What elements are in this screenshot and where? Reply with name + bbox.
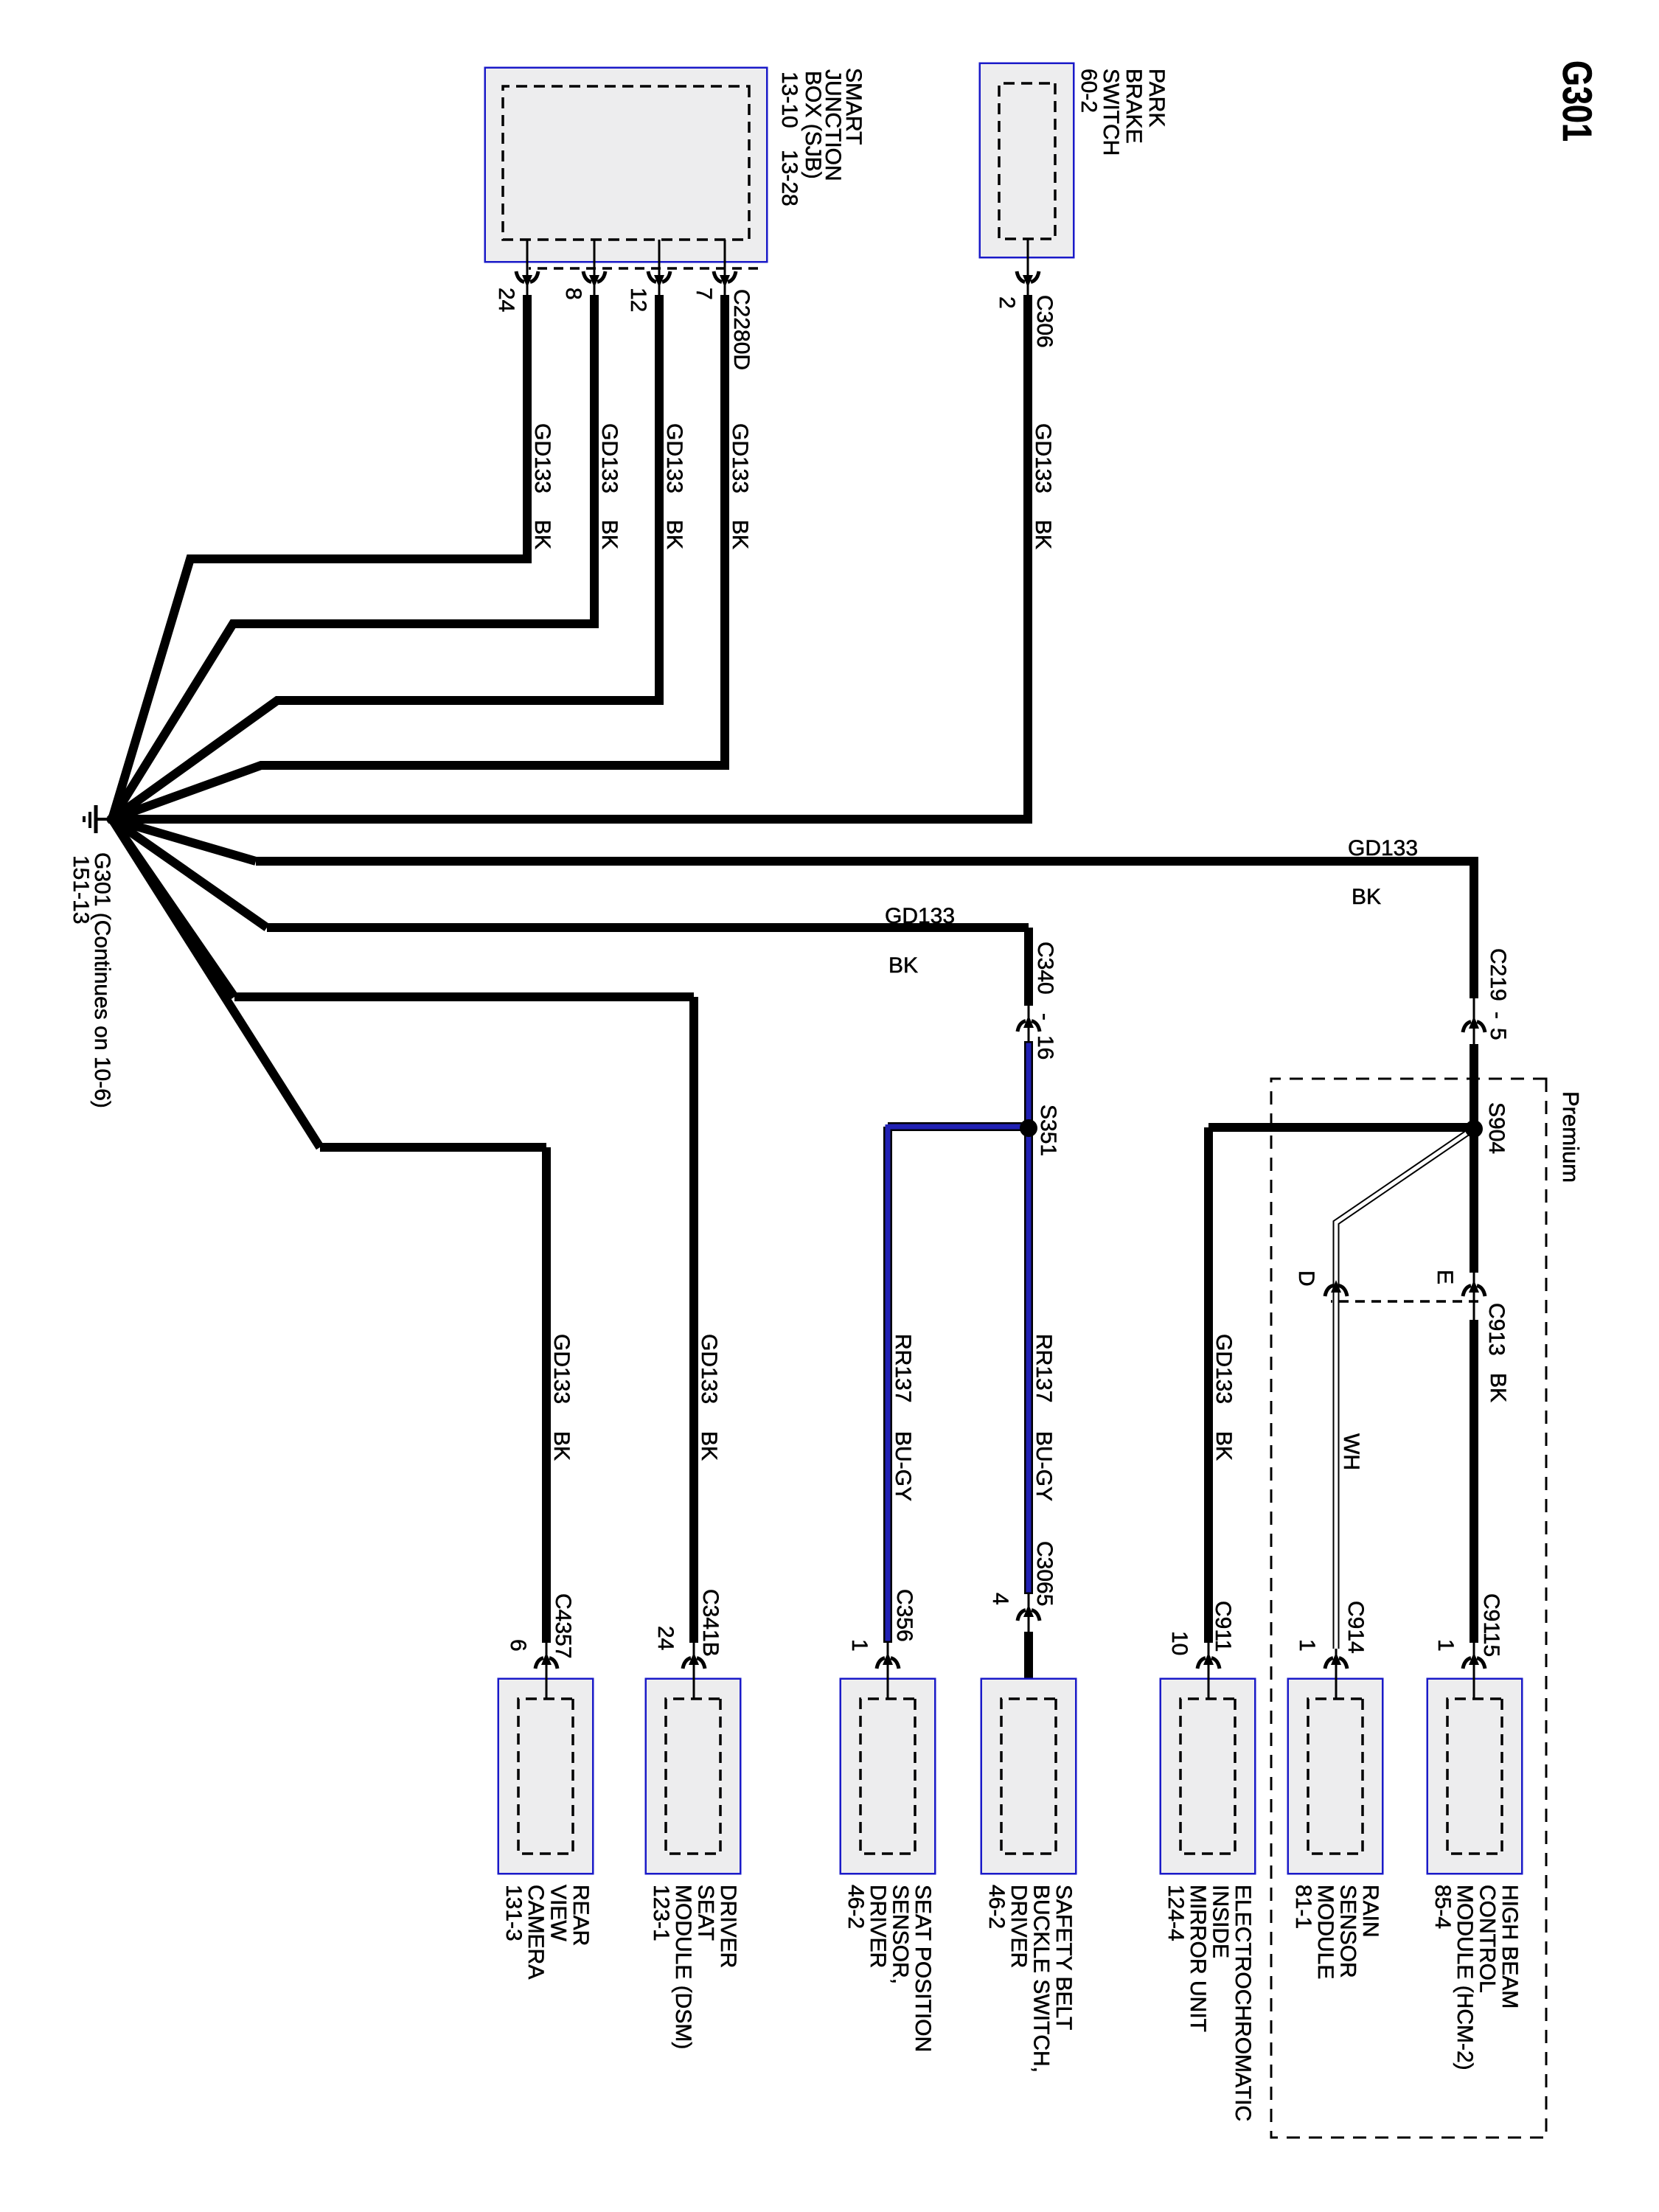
svg-text:BU-GY: BU-GY [891, 1431, 915, 1501]
svg-text:BK: BK [1352, 885, 1381, 909]
svg-text:BK: BK [697, 1431, 721, 1461]
svg-text:131-3: 131-3 [501, 1885, 526, 1941]
svg-text:C9115: C9115 [1479, 1593, 1503, 1657]
svg-text:10: 10 [1167, 1631, 1192, 1655]
svg-text:D: D [1294, 1270, 1318, 1287]
svg-text:5: 5 [1486, 1028, 1510, 1040]
svg-text:SEAT POSITION: SEAT POSITION [911, 1885, 935, 2052]
svg-text:DRIVER: DRIVER [866, 1885, 890, 1968]
svg-text:S904: S904 [1484, 1102, 1509, 1154]
svg-text:-: - [1486, 1012, 1510, 1019]
svg-text:BU-GY: BU-GY [1032, 1431, 1056, 1501]
svg-text:BK: BK [1211, 1431, 1236, 1461]
svg-text:13-10: 13-10 [777, 72, 801, 128]
svg-text:1: 1 [847, 1639, 872, 1652]
svg-text:RR137: RR137 [891, 1334, 915, 1402]
svg-text:BK: BK [1031, 520, 1055, 549]
svg-text:C2280D: C2280D [729, 289, 754, 370]
svg-text:C306: C306 [1032, 295, 1057, 348]
svg-text:ELECTROCHROMATIC: ELECTROCHROMATIC [1231, 1885, 1255, 2121]
svg-text:BK: BK [1486, 1373, 1510, 1402]
svg-text:SEAT: SEAT [694, 1885, 718, 1941]
svg-text:C914: C914 [1343, 1601, 1368, 1654]
svg-text:C341B: C341B [698, 1589, 723, 1657]
svg-text:SAFETY BELT: SAFETY BELT [1051, 1885, 1076, 2030]
svg-text:151-13: 151-13 [69, 855, 93, 924]
svg-text:GD133: GD133 [1348, 836, 1418, 860]
svg-text:1: 1 [1295, 1639, 1319, 1652]
svg-text:60-2: 60-2 [1077, 69, 1101, 113]
svg-text:4: 4 [988, 1593, 1012, 1605]
svg-text:C913: C913 [1484, 1303, 1509, 1356]
svg-text:BK: BK [530, 520, 554, 549]
svg-text:C911: C911 [1211, 1601, 1235, 1652]
svg-text:C219: C219 [1486, 948, 1510, 1001]
svg-text:8: 8 [561, 288, 585, 300]
svg-text:GD133: GD133 [662, 423, 686, 493]
svg-text:VIEW: VIEW [546, 1885, 571, 1941]
svg-text:S351: S351 [1036, 1105, 1060, 1156]
svg-text:12: 12 [626, 288, 650, 312]
svg-text:SENSOR,: SENSOR, [888, 1885, 913, 1984]
svg-text:BUCKLE SWITCH,: BUCKLE SWITCH, [1029, 1885, 1054, 2073]
svg-text:6: 6 [506, 1639, 530, 1652]
svg-text:24: 24 [653, 1626, 678, 1650]
svg-text:-: - [1033, 1013, 1057, 1020]
svg-text:MIRROR UNIT: MIRROR UNIT [1186, 1885, 1210, 2032]
svg-text:16: 16 [1033, 1035, 1057, 1060]
svg-text:46-2: 46-2 [984, 1885, 1009, 1929]
svg-text:PARK: PARK [1144, 69, 1169, 127]
svg-text:2: 2 [995, 296, 1019, 309]
svg-text:BOX (SJB): BOX (SJB) [801, 71, 825, 179]
svg-text:GD133: GD133 [728, 423, 752, 493]
svg-text:BK: BK [662, 520, 686, 549]
svg-text:GD133: GD133 [1031, 423, 1055, 493]
svg-text:13-28: 13-28 [777, 150, 801, 206]
svg-text:7: 7 [692, 288, 716, 300]
svg-text:81-1: 81-1 [1291, 1885, 1315, 1929]
svg-text:24: 24 [494, 288, 518, 312]
svg-text:DRIVER: DRIVER [1006, 1885, 1031, 1968]
svg-text:BK: BK [888, 953, 918, 978]
svg-text:GD133: GD133 [1211, 1334, 1236, 1404]
svg-text:GD133: GD133 [885, 904, 955, 928]
svg-text:G301: G301 [1554, 60, 1601, 142]
svg-text:MODULE: MODULE [1313, 1885, 1338, 1979]
svg-text:123-1: 123-1 [649, 1885, 673, 1941]
svg-text:46-2: 46-2 [844, 1885, 868, 1929]
svg-text:124-4: 124-4 [1164, 1885, 1188, 1941]
svg-text:85-4: 85-4 [1430, 1885, 1455, 1929]
svg-text:GD133: GD133 [597, 423, 622, 493]
svg-text:DRIVER: DRIVER [716, 1885, 740, 1968]
svg-text:BK: BK [549, 1431, 574, 1461]
svg-text:BRAKE: BRAKE [1121, 69, 1146, 144]
svg-text:BK: BK [728, 520, 752, 549]
svg-text:RR137: RR137 [1032, 1334, 1056, 1402]
svg-text:SWITCH: SWITCH [1099, 69, 1123, 156]
svg-text:1: 1 [1433, 1639, 1458, 1652]
svg-text:INSIDE: INSIDE [1208, 1885, 1233, 1958]
svg-text:BK: BK [597, 520, 622, 549]
svg-text:GD133: GD133 [697, 1334, 721, 1404]
svg-text:WH: WH [1339, 1433, 1363, 1470]
svg-text:REAR: REAR [568, 1885, 593, 1946]
svg-text:C340: C340 [1033, 942, 1057, 995]
svg-text:GD133: GD133 [549, 1334, 574, 1404]
svg-text:Premium: Premium [1558, 1091, 1584, 1183]
svg-text:CONTROL: CONTROL [1475, 1885, 1500, 1993]
svg-text:CAMERA: CAMERA [524, 1885, 548, 1979]
svg-text:C4357: C4357 [551, 1593, 575, 1658]
svg-text:SENSOR: SENSOR [1336, 1885, 1360, 1978]
svg-text:GD133: GD133 [530, 423, 554, 493]
svg-text:C3065: C3065 [1032, 1541, 1057, 1606]
svg-text:RAIN: RAIN [1358, 1885, 1382, 1938]
svg-text:E: E [1433, 1270, 1457, 1284]
svg-text:C356: C356 [892, 1589, 917, 1642]
svg-text:MODULE (HCM-2): MODULE (HCM-2) [1453, 1885, 1477, 2070]
svg-text:MODULE (DSM): MODULE (DSM) [671, 1885, 695, 2049]
svg-text:HIGH BEAM: HIGH BEAM [1498, 1885, 1522, 2008]
